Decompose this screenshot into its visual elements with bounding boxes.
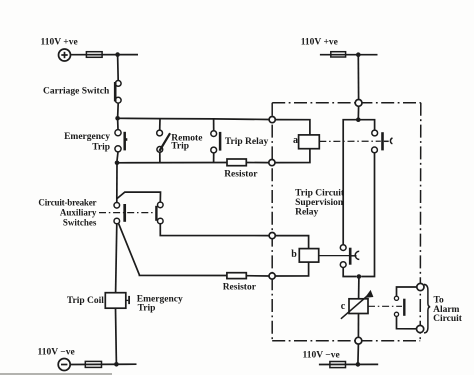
supervision relay dashed enclosure xyxy=(272,103,421,341)
wire: -ve rail right xyxy=(319,363,378,365)
svg-text:Trip: Trip xyxy=(138,304,156,314)
svg-text:Trip Relay: Trip Relay xyxy=(225,137,269,147)
wire: bottom terminal to -ve junction xyxy=(357,344,360,364)
svg-text:110V −ve: 110V −ve xyxy=(38,348,75,358)
junction: bottom wire tap xyxy=(115,161,120,166)
svg-text:c: c xyxy=(341,301,346,312)
wire: trip relay contact top stub xyxy=(213,119,215,131)
fuse (right -ve) xyxy=(330,362,346,368)
remote trip switch xyxy=(157,130,170,152)
svg-text:Resistor: Resistor xyxy=(223,282,257,292)
svg-text:Resistor: Resistor xyxy=(224,169,258,179)
wire: bottom horizontal rail y=162.6 xyxy=(117,162,269,164)
relay coil a xyxy=(299,135,320,149)
svg-text:Switches: Switches xyxy=(63,217,97,227)
junction: inner top node xyxy=(356,117,361,122)
wire: right aux switch to relay b terminal xyxy=(160,224,269,236)
wire: branch to right aux switch xyxy=(117,192,160,202)
aux switch left xyxy=(114,203,125,224)
wire: trip relay bottom stub xyxy=(213,153,215,163)
wire: terminal to inner junction xyxy=(357,106,359,119)
svg-text:Circuit: Circuit xyxy=(433,314,463,324)
adjustment arrow on c xyxy=(341,296,367,319)
wire: contact a down to lower junction xyxy=(361,153,374,277)
wire: -ve rail left xyxy=(70,363,136,365)
terminal circle (right edge, alarm top) xyxy=(417,283,424,290)
svg-text:110V −ve: 110V −ve xyxy=(303,351,340,361)
wire: down to emergency trip xyxy=(117,118,119,129)
wire: junction down to relay c xyxy=(358,277,360,299)
trip coil xyxy=(105,293,126,309)
svg-text:a: a xyxy=(293,135,298,146)
mechanical link c (dash-dot) xyxy=(368,305,402,307)
wire: down to enclosure terminal xyxy=(357,55,359,100)
junction: left -ve rail xyxy=(114,362,119,367)
junction: top wire tap xyxy=(115,116,120,121)
contact a xyxy=(372,130,393,153)
wire: remote trip top stub xyxy=(159,119,161,131)
wire: left column down to carriage switch xyxy=(117,55,120,81)
terminal circle (left edge, coil b bottom) xyxy=(269,273,275,279)
svg-text:Carriage Switch: Carriage Switch xyxy=(43,87,110,97)
mechanical link aux switches (dash-dot) xyxy=(99,212,155,214)
svg-text:110V +ve: 110V +ve xyxy=(301,37,338,47)
wire: junction to contact a column xyxy=(358,120,374,130)
fuse (right +ve) xyxy=(331,52,346,57)
junction: lower node xyxy=(357,274,362,279)
brace to alarm circuit xyxy=(424,284,430,333)
emergency trip push button (top) xyxy=(115,130,127,152)
svg-text:Emergency: Emergency xyxy=(64,132,110,142)
terminal circle (top edge) xyxy=(355,100,362,107)
aux switch right xyxy=(156,202,163,224)
contact b xyxy=(340,245,359,268)
wire: diagonal from aux switch to resistor wire xyxy=(118,223,227,275)
wire: left column to aux switch xyxy=(116,163,118,203)
svg-text:b: b xyxy=(291,249,297,260)
battery positive terminal (left) xyxy=(59,49,71,61)
mechanical link b (solid) xyxy=(319,255,349,257)
svg-text:Relay: Relay xyxy=(295,208,318,218)
wire: trip coil to -ve rail xyxy=(115,308,118,364)
wire: terminal to coil b top xyxy=(275,236,308,249)
terminal circle (left edge, resistor wire) xyxy=(269,160,275,166)
wire: c down to bottom terminal xyxy=(357,314,359,338)
fuse (left +ve) xyxy=(86,52,102,58)
wire: terminal to coil b bottom xyxy=(275,262,308,276)
junction: +ve rail / left column xyxy=(115,52,120,57)
resistor R2 xyxy=(227,273,246,279)
wire: resistor 2 to terminal xyxy=(246,275,269,277)
carriage switch xyxy=(115,81,121,104)
terminal circle (bottom edge) xyxy=(355,337,362,344)
relay coil b xyxy=(299,249,318,263)
terminal circle (right edge, alarm bottom) xyxy=(417,325,424,332)
wire: contact b to lower junction xyxy=(343,268,356,277)
wire: carriage switch to junction xyxy=(117,103,120,118)
battery negative terminal (left) xyxy=(58,359,70,371)
svg-text:110V +ve: 110V +ve xyxy=(41,37,78,47)
emergency trip actuator on trip coil xyxy=(126,299,129,301)
svg-text:Supervision: Supervision xyxy=(295,198,344,208)
fuse (left -ve) xyxy=(85,361,101,367)
svg-text:Trip: Trip xyxy=(171,141,189,151)
wire: left aux switch down to trip coil xyxy=(116,224,117,293)
svg-text:Circuit-breaker: Circuit-breaker xyxy=(38,198,96,208)
relay element c (adjustable) xyxy=(349,299,368,314)
wire: +ve rail right xyxy=(320,54,378,56)
wire: top horizontal rail y=118.5 xyxy=(118,118,270,119)
wire: junction to contact b column xyxy=(343,120,358,245)
mechanical link a (dash-dot) xyxy=(319,140,381,142)
svg-text:Trip: Trip xyxy=(92,142,110,152)
terminal circle (left edge, trip relay wire) xyxy=(269,117,275,123)
scan shadow bottom-left xyxy=(0,373,112,375)
wire: terminal to coil a bottom xyxy=(275,149,310,163)
wire: emergency trip to bottom junction xyxy=(117,152,118,161)
junction: right +ve rail xyxy=(356,52,361,57)
svg-text:Trip Circuit: Trip Circuit xyxy=(295,188,345,198)
junction: right -ve rail xyxy=(356,362,361,367)
svg-text:Trip Coil: Trip Coil xyxy=(67,296,104,306)
svg-text:To: To xyxy=(434,295,444,305)
resistor R1 xyxy=(227,159,246,166)
trip relay contact xyxy=(211,131,220,153)
wire: +ve rail left xyxy=(71,54,139,56)
wire: remote trip bottom stub xyxy=(159,152,161,162)
terminal circle (left edge, coil b top) xyxy=(269,233,275,239)
wire: terminal to coil a top xyxy=(275,120,310,135)
svg-text:Auxiliary: Auxiliary xyxy=(60,208,97,218)
alarm contact xyxy=(394,287,416,329)
